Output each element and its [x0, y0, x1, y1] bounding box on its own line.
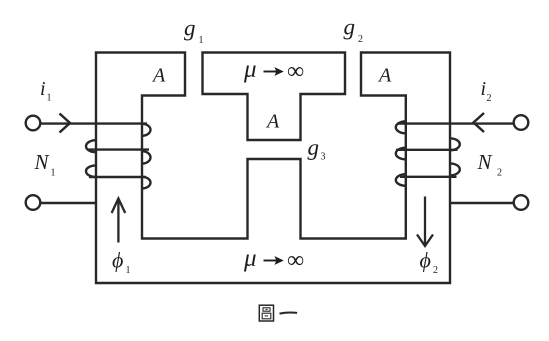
svg-text:∞: ∞	[287, 59, 304, 85]
svg-text:1: 1	[51, 168, 56, 179]
svg-text:μ: μ	[243, 245, 257, 272]
svg-text:A: A	[265, 111, 280, 133]
svg-text:2: 2	[358, 34, 363, 45]
svg-text:3: 3	[321, 152, 326, 163]
svg-text:1: 1	[199, 35, 204, 46]
svg-text:∞: ∞	[287, 248, 304, 274]
svg-text:A: A	[151, 65, 166, 87]
svg-text:2: 2	[497, 168, 502, 179]
svg-text:2: 2	[433, 265, 438, 276]
svg-text:N: N	[34, 150, 50, 174]
svg-text:i: i	[481, 78, 487, 100]
svg-text:N: N	[477, 150, 493, 174]
svg-text:ϕ: ϕ	[112, 248, 123, 273]
svg-text:g: g	[308, 135, 320, 160]
svg-text:ϕ: ϕ	[420, 248, 431, 273]
svg-text:A: A	[377, 65, 392, 87]
svg-text:g: g	[344, 15, 356, 40]
svg-text:2: 2	[487, 93, 492, 104]
svg-text:1: 1	[47, 93, 52, 104]
svg-text:1: 1	[126, 265, 131, 276]
svg-text:μ: μ	[243, 56, 257, 83]
svg-text:g: g	[184, 16, 196, 41]
svg-text:i: i	[40, 78, 46, 100]
